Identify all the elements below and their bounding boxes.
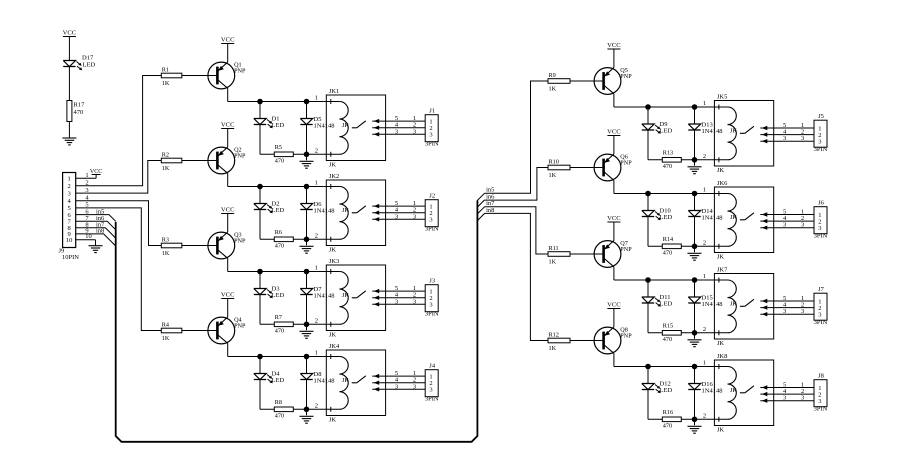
svg-text:VCC: VCC	[607, 129, 621, 136]
svg-text:3: 3	[429, 132, 432, 139]
svg-text:1: 1	[703, 273, 706, 280]
svg-text:VCC: VCC	[607, 302, 621, 309]
svg-text:1K: 1K	[162, 250, 170, 257]
svg-text:R14: R14	[663, 236, 673, 243]
svg-text:J8: J8	[818, 373, 824, 380]
svg-text:2: 2	[703, 412, 706, 419]
svg-text:1N4148: 1N4148	[314, 378, 335, 385]
svg-text:JK1: JK1	[329, 88, 339, 95]
svg-text:R9: R9	[549, 72, 556, 79]
svg-text:1K: 1K	[549, 345, 557, 352]
svg-text:470: 470	[275, 413, 284, 420]
svg-text:LED: LED	[660, 301, 673, 308]
svg-text:3: 3	[395, 383, 398, 390]
svg-text:PNP: PNP	[620, 73, 632, 80]
svg-text:LED: LED	[272, 377, 285, 384]
svg-text:PNP: PNP	[234, 68, 246, 75]
svg-text:LED: LED	[272, 207, 285, 214]
svg-text:VCC: VCC	[607, 42, 621, 49]
svg-text:2: 2	[703, 239, 706, 246]
svg-text:2: 2	[67, 183, 70, 190]
svg-text:3: 3	[818, 225, 821, 232]
svg-text:1K: 1K	[549, 172, 557, 179]
svg-text:VCC: VCC	[221, 122, 235, 129]
svg-text:470: 470	[663, 336, 672, 343]
svg-text:PNP: PNP	[620, 160, 632, 167]
svg-text:3PIN: 3PIN	[814, 319, 828, 326]
svg-text:in8: in8	[96, 228, 104, 235]
svg-text:R4: R4	[162, 322, 169, 329]
svg-text:LED: LED	[272, 122, 285, 129]
svg-text:in8: in8	[486, 207, 494, 214]
svg-text:2: 2	[315, 232, 318, 239]
svg-text:JK5: JK5	[717, 94, 727, 101]
svg-text:R6: R6	[275, 229, 282, 236]
svg-text:3PIN: 3PIN	[425, 311, 439, 318]
svg-text:VCC: VCC	[607, 215, 621, 222]
svg-text:R17: R17	[74, 102, 86, 109]
svg-text:10: 10	[85, 233, 92, 240]
svg-text:J5: J5	[818, 113, 824, 120]
svg-text:VCC: VCC	[221, 207, 235, 214]
svg-text:PNP: PNP	[234, 153, 246, 160]
svg-text:1: 1	[315, 180, 318, 187]
svg-text:JK2: JK2	[329, 173, 339, 180]
svg-text:JK8: JK8	[717, 353, 727, 360]
svg-text:3: 3	[429, 387, 432, 394]
svg-text:3: 3	[395, 298, 398, 305]
svg-text:2: 2	[85, 180, 88, 187]
svg-text:R16: R16	[663, 409, 673, 416]
svg-text:3PIN: 3PIN	[814, 233, 828, 240]
svg-text:3PIN: 3PIN	[425, 396, 439, 403]
svg-text:3: 3	[413, 298, 416, 305]
svg-text:JK: JK	[329, 332, 337, 339]
svg-text:1K: 1K	[162, 335, 170, 342]
svg-text:3: 3	[818, 398, 821, 405]
svg-text:470: 470	[275, 243, 284, 250]
svg-text:J7: J7	[818, 286, 825, 293]
svg-text:VCC: VCC	[221, 37, 235, 44]
svg-text:1: 1	[315, 95, 318, 102]
svg-text:3: 3	[818, 312, 821, 319]
svg-text:3: 3	[818, 139, 821, 146]
svg-text:1K: 1K	[162, 165, 170, 172]
svg-text:J1: J1	[429, 108, 435, 115]
svg-text:JK: JK	[717, 254, 725, 261]
svg-text:1K: 1K	[549, 258, 557, 265]
svg-text:R7: R7	[275, 314, 282, 321]
svg-text:JK: JK	[717, 340, 725, 347]
svg-text:VCC: VCC	[221, 292, 235, 299]
svg-text:R1: R1	[162, 67, 169, 74]
svg-text:3: 3	[783, 135, 786, 142]
svg-text:PNP: PNP	[620, 333, 632, 340]
svg-text:LED: LED	[660, 387, 673, 394]
svg-text:R5: R5	[275, 144, 282, 151]
svg-text:VCC: VCC	[90, 169, 102, 175]
svg-text:3: 3	[395, 213, 398, 220]
svg-text:3: 3	[783, 308, 786, 315]
svg-text:1N4148: 1N4148	[702, 301, 723, 308]
svg-text:1: 1	[315, 350, 318, 357]
svg-text:1N4148: 1N4148	[702, 128, 723, 135]
svg-text:3: 3	[783, 395, 786, 402]
svg-text:10PIN: 10PIN	[62, 254, 79, 261]
svg-text:3: 3	[801, 222, 804, 229]
svg-text:LED: LED	[660, 128, 673, 135]
svg-text:1N4148: 1N4148	[702, 388, 723, 395]
svg-text:R8: R8	[275, 399, 282, 406]
svg-text:LED: LED	[272, 292, 285, 299]
svg-text:3: 3	[801, 135, 804, 142]
svg-text:3: 3	[85, 187, 88, 194]
svg-text:470: 470	[74, 109, 84, 116]
svg-text:J6: J6	[818, 200, 825, 207]
svg-text:3: 3	[429, 217, 432, 224]
svg-text:3PIN: 3PIN	[425, 141, 439, 148]
svg-text:1: 1	[703, 187, 706, 194]
svg-text:2: 2	[315, 402, 318, 409]
svg-text:R13: R13	[663, 150, 673, 157]
svg-text:3: 3	[67, 190, 70, 197]
svg-text:R3: R3	[162, 237, 169, 244]
svg-text:3: 3	[413, 213, 416, 220]
svg-text:R10: R10	[549, 159, 559, 166]
svg-text:3: 3	[801, 395, 804, 402]
svg-text:1N4148: 1N4148	[314, 293, 335, 300]
svg-text:1N4148: 1N4148	[702, 215, 723, 222]
svg-text:1K: 1K	[549, 85, 557, 92]
svg-text:JK6: JK6	[717, 180, 728, 187]
svg-text:470: 470	[275, 328, 284, 335]
svg-text:3PIN: 3PIN	[425, 226, 439, 233]
svg-text:470: 470	[275, 158, 284, 165]
svg-text:3: 3	[395, 128, 398, 135]
svg-text:1: 1	[315, 265, 318, 272]
svg-text:3PIN: 3PIN	[814, 406, 828, 413]
svg-text:JK: JK	[329, 417, 337, 424]
svg-text:2: 2	[315, 317, 318, 324]
svg-text:JK: JK	[717, 427, 725, 434]
svg-text:PNP: PNP	[620, 246, 632, 253]
svg-text:3: 3	[413, 383, 416, 390]
svg-text:470: 470	[663, 250, 672, 257]
svg-text:3: 3	[783, 222, 786, 229]
svg-text:R11: R11	[549, 245, 559, 252]
svg-text:1N4148: 1N4148	[314, 123, 335, 130]
svg-text:LED: LED	[83, 62, 96, 69]
svg-text:JK4: JK4	[329, 343, 340, 350]
svg-text:J3: J3	[429, 278, 435, 285]
svg-text:3: 3	[801, 308, 804, 315]
svg-text:JK: JK	[329, 162, 337, 169]
svg-text:JK: JK	[329, 247, 337, 254]
svg-text:D17: D17	[82, 55, 94, 62]
svg-text:LED: LED	[660, 214, 673, 221]
svg-text:J4: J4	[429, 363, 436, 370]
svg-text:R15: R15	[663, 323, 673, 330]
svg-text:1K: 1K	[162, 80, 170, 87]
svg-text:J2: J2	[429, 193, 435, 200]
svg-text:R2: R2	[162, 152, 169, 159]
svg-text:VCC: VCC	[63, 30, 77, 37]
svg-text:JK: JK	[717, 167, 725, 174]
svg-text:JK3: JK3	[329, 258, 339, 265]
svg-text:PNP: PNP	[234, 238, 246, 245]
svg-text:2: 2	[703, 153, 706, 160]
svg-text:1N4148: 1N4148	[314, 208, 335, 215]
svg-text:1: 1	[85, 172, 88, 179]
svg-text:3: 3	[429, 302, 432, 309]
svg-text:470: 470	[663, 163, 672, 170]
svg-text:470: 470	[663, 423, 672, 430]
svg-text:1: 1	[703, 360, 706, 367]
svg-text:3: 3	[413, 128, 416, 135]
svg-text:R12: R12	[549, 332, 559, 339]
svg-text:PNP: PNP	[234, 323, 246, 330]
svg-text:3PIN: 3PIN	[814, 146, 828, 153]
svg-text:2: 2	[315, 147, 318, 154]
svg-text:2: 2	[703, 326, 706, 333]
svg-text:1: 1	[703, 100, 706, 107]
svg-text:10: 10	[66, 237, 73, 244]
svg-text:1: 1	[67, 176, 70, 183]
svg-text:JK7: JK7	[717, 267, 728, 274]
